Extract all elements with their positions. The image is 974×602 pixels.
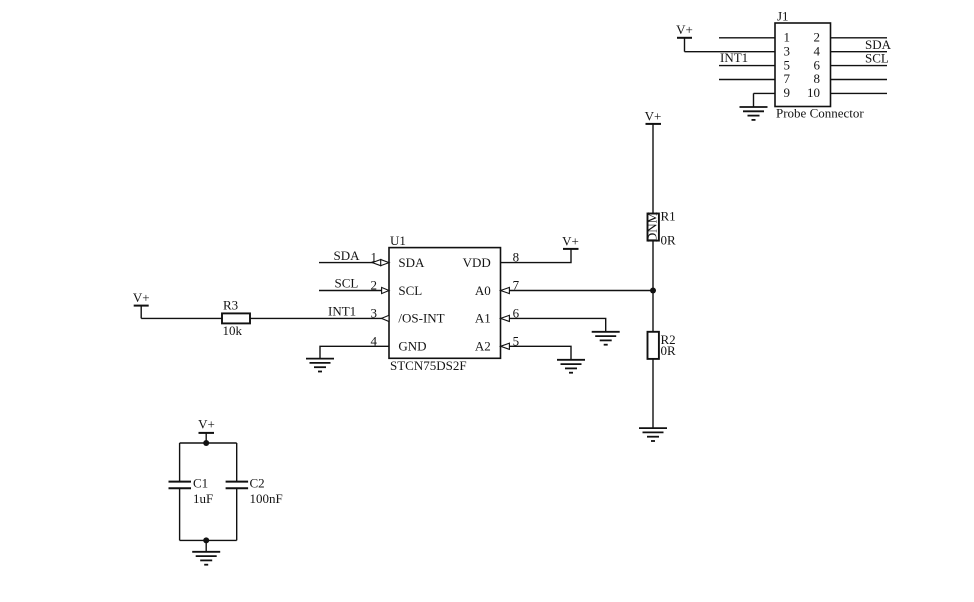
- net label INT1 (J1 pin 5): [720, 50, 748, 65]
- svg-text:5: 5: [784, 57, 791, 72]
- svg-text:INT1: INT1: [720, 50, 748, 65]
- Probe Connector label: [776, 106, 864, 121]
- wire bottom rail to ground: [205, 540, 207, 551]
- input arrow U1 pin 2: [382, 287, 389, 293]
- ground (U1 pin 4): [306, 359, 334, 372]
- svg-text:8: 8: [814, 71, 821, 86]
- wire J1 pin 9: [754, 93, 776, 107]
- svg-text:DNM: DNM: [645, 211, 660, 242]
- U1 pin 8 number: [513, 250, 520, 265]
- U1 pin name A2: [475, 339, 491, 354]
- wire R2 to ground: [652, 359, 654, 428]
- net label SCL (J1 pin 6): [865, 51, 889, 66]
- svg-text:V+: V+: [562, 234, 579, 249]
- svg-text:/OS-INT: /OS-INT: [398, 311, 444, 326]
- U1 pin 4 number: [371, 333, 378, 348]
- svg-text:9: 9: [784, 85, 791, 100]
- power V+ (R3): [133, 290, 150, 319]
- U1 pin 5 number: [513, 333, 520, 348]
- wire top rail C1-C2: [180, 442, 237, 444]
- node junction bottom rail: [203, 537, 209, 543]
- resistor R1 (DNM): [645, 209, 677, 248]
- svg-text:STCN75DS2F: STCN75DS2F: [390, 358, 467, 373]
- wire R3 to U1 pin 3: [250, 317, 389, 319]
- svg-text:V+: V+: [645, 109, 662, 124]
- wire J1 pin 6: [831, 65, 888, 67]
- svg-text:SCL: SCL: [335, 276, 359, 291]
- svg-text:SCL: SCL: [865, 51, 889, 66]
- net label SCL (U1 pin 2): [335, 276, 359, 291]
- wire SCL to U1 pin 2: [319, 290, 389, 292]
- U1 pin name GND: [398, 339, 426, 354]
- connector J1 body: [775, 23, 831, 107]
- wire J1 pin 7: [719, 79, 775, 81]
- U1 pin name A0: [475, 283, 491, 298]
- power V+ (C1 C2): [198, 416, 215, 443]
- capacitor C2: [226, 476, 283, 506]
- svg-text:10k: 10k: [223, 323, 243, 338]
- wire C2 to bottom rail: [236, 488, 238, 540]
- svg-text:U1: U1: [390, 233, 406, 248]
- J1 pin 2 number: [814, 30, 821, 45]
- ground (J1 pin 9): [740, 107, 768, 120]
- wire J1 pin 2: [831, 37, 888, 39]
- svg-text:2: 2: [814, 30, 821, 45]
- svg-text:C2: C2: [250, 476, 265, 491]
- svg-text:J1: J1: [777, 9, 789, 24]
- svg-text:V+: V+: [676, 22, 693, 37]
- U1 pin name VDD: [463, 255, 491, 270]
- svg-text:V+: V+: [198, 416, 215, 431]
- U1 pin name SDA: [398, 255, 425, 270]
- resistor R2: [648, 332, 677, 359]
- J1 pin 1 number: [784, 30, 791, 45]
- J1 pin 10 number: [807, 85, 820, 100]
- J1 reference label: [777, 9, 789, 24]
- U1 pin name /OS-INT: [398, 311, 444, 326]
- IC U1 body: [389, 248, 501, 359]
- svg-text:SDA: SDA: [398, 255, 425, 270]
- U1 reference label: [390, 233, 406, 248]
- wire V+ to R3: [141, 317, 222, 319]
- net label SDA (J1 pin 4): [865, 37, 892, 52]
- wire J1 pin 10: [831, 92, 888, 94]
- U1 pin 1 number: [371, 250, 378, 265]
- svg-text:SCL: SCL: [398, 283, 422, 298]
- U1 pin 3 number: [371, 305, 378, 320]
- wire R1 to node A0: [652, 241, 654, 332]
- resistor R3: [222, 297, 250, 338]
- ground (U1 pin 5 / A2): [557, 360, 585, 373]
- net label INT1 (U1 pin 3): [328, 304, 356, 319]
- bidirectional arrow U1 pin 1: [372, 260, 389, 266]
- wire J1 pin 4: [831, 51, 888, 53]
- input arrow U1 pin 5: [501, 343, 510, 349]
- J1 pin 4 number: [814, 43, 821, 58]
- power V+ (R1 rail): [645, 109, 662, 124]
- J1 pin 7 number: [784, 71, 791, 86]
- U1 pin 7 number: [513, 278, 520, 293]
- wire U1 pin 6 to ground: [501, 318, 606, 331]
- svg-text:A2: A2: [475, 339, 491, 354]
- svg-text:V+: V+: [133, 290, 150, 305]
- J1 pin 5 number: [784, 57, 791, 72]
- J1 pin 9 number: [784, 85, 791, 100]
- wire V+ to R1: [652, 124, 654, 214]
- input arrow U1 pin 7: [501, 287, 510, 293]
- wire J1 pin 8: [831, 79, 888, 81]
- ground (C1 C2): [192, 552, 220, 565]
- wire bottom rail C1-C2: [180, 539, 237, 541]
- wire U1 pin 4 to ground: [320, 346, 389, 358]
- svg-text:INT1: INT1: [328, 304, 356, 319]
- capacitor C1: [169, 476, 214, 506]
- svg-text:Probe Connector: Probe Connector: [776, 106, 864, 121]
- node junction A0: [650, 288, 656, 294]
- power V+ (U1 VDD): [562, 234, 579, 249]
- svg-text:GND: GND: [398, 339, 426, 354]
- J1 pin 8 number: [814, 71, 821, 86]
- wire U1 pin 7 to node A0: [501, 290, 654, 292]
- svg-text:1uF: 1uF: [193, 491, 213, 506]
- U1 pin name SCL: [398, 283, 422, 298]
- svg-text:1: 1: [784, 30, 791, 45]
- wire top rail to C2: [236, 443, 238, 482]
- wire C1 to bottom rail: [179, 488, 181, 540]
- U1 part number STCN75DS2F: [390, 358, 467, 373]
- wire SDA to U1 pin 1: [319, 262, 389, 264]
- wire U1 pin 8 to V+: [501, 249, 572, 263]
- svg-text:6: 6: [814, 57, 821, 72]
- wire J1 pin 5: [719, 65, 775, 67]
- svg-text:VDD: VDD: [463, 255, 491, 270]
- input arrow U1 pin 6: [501, 315, 510, 321]
- net label SDA (U1 pin 1): [334, 248, 361, 263]
- U1 pin 2 number: [371, 278, 378, 293]
- svg-text:C1: C1: [193, 476, 208, 491]
- svg-text:A1: A1: [475, 311, 491, 326]
- wire V+ to J1 pin 3: [685, 51, 776, 53]
- svg-text:R1: R1: [661, 209, 676, 224]
- svg-text:3: 3: [784, 43, 791, 58]
- svg-text:4: 4: [814, 43, 821, 58]
- output arrow U1 pin 3: [382, 315, 390, 321]
- wire U1 pin 5 to ground: [501, 346, 572, 360]
- svg-text:100nF: 100nF: [250, 491, 283, 506]
- svg-text:R3: R3: [223, 297, 238, 312]
- J1 pin 6 number: [814, 57, 821, 72]
- wire J1 pin 1: [719, 37, 775, 39]
- svg-text:A0: A0: [475, 283, 491, 298]
- ground (U1 pin 6 / A1): [592, 332, 620, 345]
- ground (R2): [639, 428, 667, 441]
- svg-text:0R: 0R: [661, 343, 677, 358]
- svg-text:7: 7: [784, 71, 791, 86]
- svg-text:0R: 0R: [661, 233, 677, 248]
- U1 pin name A1: [475, 311, 491, 326]
- node junction top rail: [203, 440, 209, 446]
- power V+ (J1 pin 3): [676, 22, 693, 52]
- J1 pin 3 number: [784, 43, 791, 58]
- wire top rail to C1: [179, 443, 181, 482]
- svg-text:SDA: SDA: [334, 248, 361, 263]
- svg-text:10: 10: [807, 85, 820, 100]
- U1 pin 6 number: [513, 305, 520, 320]
